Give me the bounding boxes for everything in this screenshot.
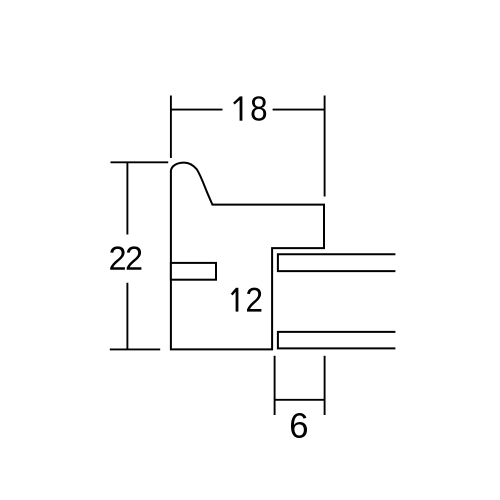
label 22 digit 2 (second) xyxy=(127,246,142,269)
rabbet groove rectangle xyxy=(171,263,216,280)
glass board (upper bar) xyxy=(278,254,396,271)
dim-6 right extension line xyxy=(324,356,326,415)
backing board (lower bar) xyxy=(278,332,396,349)
label 22 digit 2 (first) xyxy=(110,246,125,269)
dim-18 line left segment xyxy=(171,109,223,111)
label 12 digit 1 stem xyxy=(236,288,239,312)
label 6 xyxy=(291,413,307,438)
dim-22 top tick xyxy=(111,161,169,163)
dim-22 bottom tick xyxy=(110,348,160,350)
label 18 digit 1 stem xyxy=(240,96,243,120)
dim-18 line right segment xyxy=(273,109,325,111)
label 18 digit 8 xyxy=(252,96,267,121)
dim-6 left extension line xyxy=(274,356,276,415)
dim-18 left extension line xyxy=(170,96,172,159)
label 12 digit 1 flag xyxy=(232,289,237,295)
dim-18 right extension line xyxy=(324,96,326,197)
dim-22 line lower segment xyxy=(126,283,128,350)
moulding profile outline xyxy=(171,163,324,350)
dim-6 line xyxy=(275,399,325,401)
label 18 digit 1 flag xyxy=(234,98,241,104)
label 12 digit 2 xyxy=(247,288,261,312)
dim-22 line upper segment xyxy=(126,162,128,234)
